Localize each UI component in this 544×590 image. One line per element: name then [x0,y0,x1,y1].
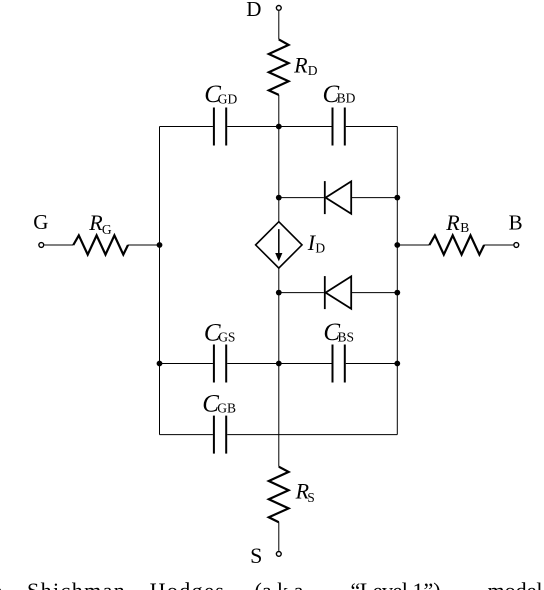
label CGB [202,390,236,417]
wire top-left rail [160,126,213,128]
node G terminal [39,243,44,248]
wire center to current source [278,127,280,222]
capacitor CGB [214,416,226,454]
node D terminal [276,6,281,11]
wire row5 left [160,363,213,365]
wire RB to B [484,244,513,246]
wire RD to top node [278,95,280,127]
wire diode2 left [279,292,324,294]
wire left vertical rail [159,127,161,435]
wire D to RD [278,11,280,39]
resistor RS [269,467,289,523]
wire row5 right [346,363,398,365]
label RD [293,52,318,77]
node diode2 left [276,290,282,296]
resistor RD [269,39,289,95]
label RS [295,479,315,505]
label CBD [323,81,356,108]
wire diode1 left [279,197,324,199]
label RB [445,210,469,235]
node diode1 left [276,195,282,201]
wire right vertical rail [396,127,398,435]
wire diode2 right [351,292,397,294]
resistor RB [429,235,484,254]
wire right rail to RB [397,244,429,246]
node G junction [157,242,163,248]
wire center to RS [278,435,280,467]
node row5 right [394,361,400,367]
label CGS [204,319,236,346]
label ID [307,230,326,255]
wire G to RG [44,244,73,246]
wire bottom rail right [227,434,397,436]
wire top-middle [227,126,331,128]
label CBS [323,319,354,346]
wire RG to left rail [128,244,160,246]
wire bottom rail left [160,434,213,436]
wire row5 middle [227,363,331,365]
wire diode1 right [351,197,397,199]
node B junction [394,242,400,248]
capacitor CGS [214,345,226,383]
capacitor CGD [214,108,226,146]
capacitor CBS [333,345,345,383]
current source ID [256,222,302,268]
resistor RG [73,235,128,254]
wire top-right rail [346,126,398,128]
node row5 center [276,361,282,367]
node diode1 right [394,195,400,201]
wire center current source to bottom [278,268,280,435]
node top junction [276,124,282,130]
label CGD [204,81,237,108]
label RG [88,210,112,237]
diode D2 [325,276,351,309]
node row5 left [157,361,163,367]
node B terminal [514,243,519,248]
node S terminal [276,552,281,557]
diode D1 [325,181,351,214]
capacitor CBD [333,108,345,146]
wire RS to S [278,522,280,551]
node diode2 right [394,290,400,296]
